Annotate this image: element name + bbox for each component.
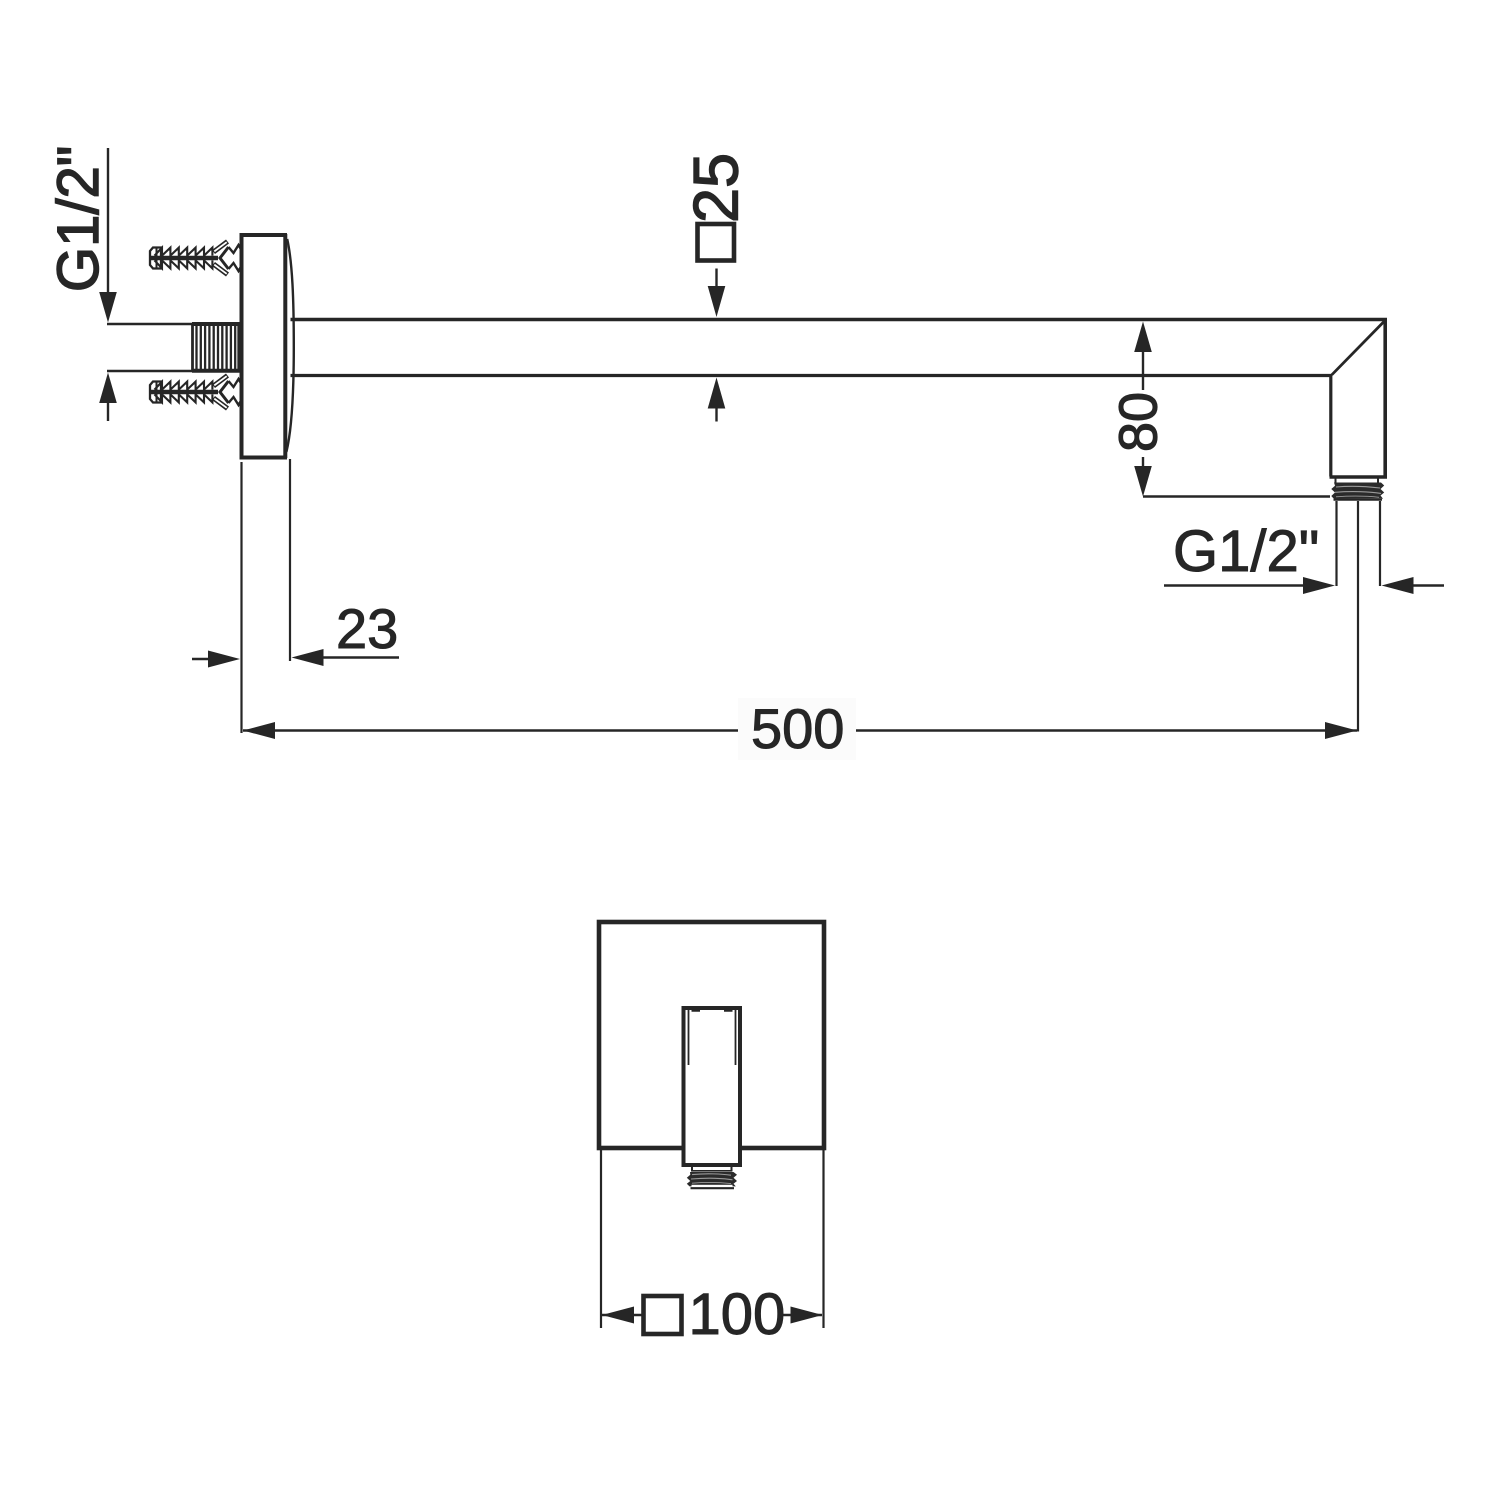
- flange domed front edge: [286, 239, 293, 452]
- svg-text:G1/2": G1/2": [46, 146, 111, 292]
- arm bottom line: [291, 376, 1331, 477]
- wall flange plate (side view): [240, 234, 288, 460]
- tube inner edge lines (front view): [689, 1010, 736, 1065]
- outlet nipple step (side view): [1336, 479, 1379, 483]
- G1/2 extension line bottom: [107, 370, 192, 372]
- elbow miter line: [1332, 321, 1385, 375]
- wall anchor screw top: [150, 242, 241, 275]
- dimension G1/2" (bottom right): [1164, 501, 1444, 594]
- square plate (front view): [599, 922, 824, 1148]
- dimension 23 (flange depth): [192, 459, 399, 668]
- dimension 500 (bottom overall): [242, 462, 1359, 760]
- outlet nipple (front view): [687, 1167, 737, 1188]
- dimension square-100 (front view): [601, 1150, 824, 1347]
- svg-text:23: 23: [336, 597, 398, 660]
- arm tube (front view): [684, 1008, 741, 1165]
- svg-text:500: 500: [751, 697, 844, 760]
- shower arm tube outline (horizontal run + right vertical drop): [291, 320, 1386, 477]
- svg-text:100: 100: [689, 1282, 786, 1347]
- svg-text:G1/2": G1/2": [1173, 519, 1319, 584]
- wall anchor screw bottom: [150, 376, 241, 409]
- wall pipe thread block: [192, 324, 240, 371]
- svg-text:80: 80: [1109, 392, 1169, 452]
- dimension 80 (right vertical): [1109, 322, 1331, 497]
- tube inner top ticks (front view): [692, 1010, 733, 1012]
- svg-text:25: 25: [682, 153, 752, 223]
- outlet thread scribble (side view): [1331, 483, 1384, 500]
- dimension square-25 (top middle): [682, 153, 752, 422]
- dimension G1/2" (top left): [46, 146, 117, 421]
- drop tube bottom edge: [1330, 475, 1388, 478]
- G1/2 extension line top: [107, 323, 192, 325]
